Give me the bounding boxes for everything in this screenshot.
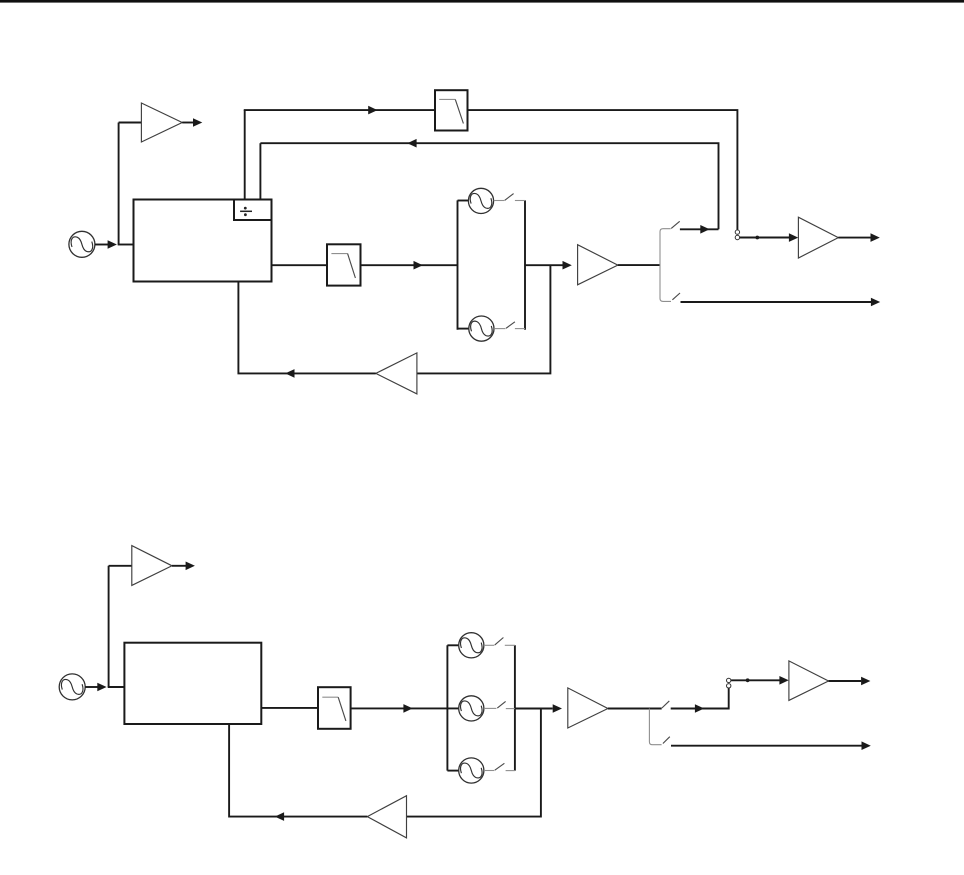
demux S2 bottom blade	[672, 293, 680, 300]
switch blade G3	[495, 638, 504, 645]
switch blade G1	[505, 194, 514, 201]
filter F3 response symbol flat	[322, 696, 338, 698]
wire F3 to tone bank 2	[351, 707, 459, 709]
switch blade G4	[497, 701, 505, 708]
wire S3 bottom output aux	[671, 745, 862, 747]
tone bank 1 right rail	[524, 200, 526, 329]
sine source G2	[469, 316, 494, 341]
amp A6	[568, 688, 608, 728]
tone bank 2 left rail	[446, 645, 448, 770]
sine source SRC2	[59, 674, 85, 700]
wire A4 to U1	[238, 282, 375, 374]
contact stub G4	[506, 708, 515, 710]
pin wire U1 to feed-forward line	[244, 110, 246, 199]
contact stub G5	[506, 770, 515, 772]
node A vertical wire to buffer A1	[118, 123, 120, 245]
arrowhead feedback into U2	[275, 812, 284, 821]
output amp A3	[798, 217, 838, 258]
arrowhead A1 output	[193, 118, 202, 127]
wire node A to buffer A1 input	[119, 122, 142, 124]
DSP block U1	[134, 200, 272, 282]
arrowhead S2 top output	[700, 225, 709, 234]
wire S2 top output to return line	[680, 228, 719, 230]
arrowhead aux out 1	[871, 298, 880, 307]
tone branch 5 wire to blade	[484, 770, 494, 772]
wire A3 output	[838, 237, 870, 239]
wire A6 to switch S3	[608, 708, 662, 710]
wire tone bank 1 to amp A2	[525, 264, 563, 266]
filter F2 response symbol slope	[348, 254, 356, 278]
wire SRC1 to node A	[95, 244, 108, 246]
arrowhead feed-forward	[368, 106, 377, 115]
wire node C to buffer A5 input	[109, 565, 132, 567]
wire node A to block U1	[118, 244, 134, 246]
arrowhead return wire	[407, 139, 416, 148]
arrowhead into A6	[553, 704, 562, 713]
switch blade G5	[495, 763, 505, 770]
page top rule	[0, 0, 964, 3]
tone bank 2 right rail	[514, 645, 516, 770]
monitor buffer amp A1	[141, 103, 182, 142]
sine source G4	[459, 696, 484, 721]
wire F2 to tone bank 1	[361, 264, 458, 266]
sine source G1	[468, 188, 493, 213]
arrowhead feedback into U1	[285, 369, 294, 378]
demux S2 frame	[660, 229, 671, 302]
pin wire return line into U1	[259, 143, 261, 199]
divide symbol	[240, 207, 252, 216]
arrowhead S3 top output	[695, 704, 704, 713]
arrowhead into tone bank 2	[403, 704, 412, 713]
filter F1 response symbol slope	[455, 99, 463, 123]
wire node C to block U2	[108, 686, 125, 688]
switch S4 contact upper	[727, 678, 731, 682]
output amp A7	[789, 661, 829, 701]
sine source G3	[459, 633, 484, 658]
inverting amp A4	[376, 353, 417, 394]
wire tone bank 2 to amp A6	[515, 708, 553, 710]
switch S3 bottom blade	[663, 737, 670, 744]
arrowhead main out 1	[871, 233, 880, 242]
divider sub-block of U1	[234, 200, 272, 221]
wire A7 output	[829, 680, 862, 682]
tone branch 1 wire left	[458, 200, 469, 202]
switch blade G2	[506, 322, 515, 329]
wire A1 output	[182, 122, 193, 124]
switch S3 frame	[649, 709, 661, 745]
wire U1 output to filter F2	[272, 264, 328, 266]
tone branch 2 wire to blade	[494, 328, 505, 330]
wire U2 output to filter F3	[261, 707, 318, 709]
sine source G5	[459, 758, 484, 783]
wire S4 to amp A7	[731, 679, 780, 681]
node C vertical wire to buffer A5	[108, 566, 110, 687]
arrowhead into A3	[789, 233, 798, 242]
arrowhead into A2	[563, 261, 572, 270]
filter F3 response symbol slope	[338, 697, 346, 721]
monitor buffer amp A5	[132, 546, 172, 586]
arrowhead A5 output	[186, 562, 195, 571]
contact stub G3	[505, 644, 515, 646]
switch S3 top blade	[662, 701, 669, 708]
feed-forward wire to filter F1	[244, 109, 435, 111]
junction dot node B	[755, 236, 759, 240]
wire S2 bottom output aux	[681, 301, 872, 303]
arrowhead SRC1 into node A	[108, 240, 117, 249]
wire switch S1 to amp A3	[740, 237, 790, 239]
tone bank 1 left rail	[457, 200, 459, 329]
tone branch 2 wire left	[458, 328, 469, 330]
switch S4 contact lower	[727, 684, 731, 688]
filter F2 response symbol flat	[331, 253, 347, 255]
tone branch 1 wire to blade	[494, 200, 505, 202]
arrowhead SRC2 into node C	[97, 683, 106, 692]
contact stub G1	[515, 200, 525, 202]
tone branch 4 wire to blade	[484, 707, 496, 709]
filter F3 box	[318, 687, 351, 729]
tone branch 3 wire to blade	[484, 644, 494, 646]
demux S2 top blade	[671, 221, 680, 228]
wire A5 output	[172, 565, 186, 567]
switch S1 contact from F1	[735, 230, 739, 234]
inverting amp A8	[367, 796, 406, 838]
switch S1 contact to amp A3	[735, 235, 739, 239]
contact stub G2	[515, 328, 525, 330]
amp A2	[578, 245, 618, 285]
wire A2 to demux S2	[618, 264, 660, 266]
tone branch 3 wire left	[447, 644, 458, 646]
feedback tap wire top	[417, 265, 551, 373]
wire S3 top output to switch S4	[671, 688, 729, 709]
feedback tap wire bottom	[407, 709, 541, 817]
wire A8 to U2	[229, 724, 367, 817]
arrowhead aux out 2	[862, 741, 871, 750]
tone branch 5 wire left	[447, 770, 458, 772]
wire F1 to switch S1	[468, 110, 738, 230]
filter F2 box	[327, 244, 361, 285]
filter F1 box	[435, 90, 468, 130]
junction dot node D	[746, 678, 750, 682]
codec block U2	[124, 643, 261, 724]
return wire demux S2 to U1	[260, 143, 718, 229]
arrowhead into tone bank 1	[414, 261, 423, 270]
sine source SRC1	[69, 231, 95, 257]
wire SRC2 to node C	[85, 686, 98, 688]
arrowhead into A7	[779, 676, 788, 685]
filter F1 response symbol flat	[439, 98, 455, 100]
arrowhead main out 2	[861, 677, 870, 686]
